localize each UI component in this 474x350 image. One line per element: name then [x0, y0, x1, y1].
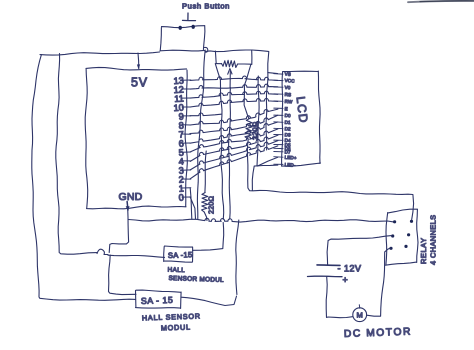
resistor 220 ohm upper: [245, 119, 252, 140]
wire pin1 to GND rail: [190, 188, 192, 219]
wire pin13 to LCD VCC: [190, 76, 278, 80]
svg-text:MODUL: MODUL: [161, 322, 191, 332]
ground arrow: [126, 202, 129, 211]
svg-text:E: E: [284, 106, 288, 111]
wire vertical GND rail to SA-15 module 2: [236, 220, 239, 295]
svg-text:V0: V0: [284, 85, 290, 90]
wire vertical mid bundle: [257, 76, 259, 166]
wire left inner supply: [56, 54, 97, 255]
resistor 220 ohm lower: [202, 193, 208, 213]
svg-text:GND: GND: [119, 191, 143, 203]
wire vertical from button right leg: [197, 50, 205, 219]
svg-text:220Ω: 220Ω: [209, 196, 216, 214]
wire motor to relay: [367, 248, 391, 316]
push button contact dot right: [192, 25, 195, 29]
potentiometer wiper arrow: [229, 72, 231, 88]
push button: [160, 26, 205, 52]
svg-text:LED-: LED-: [284, 162, 296, 168]
LCD display module: [282, 71, 321, 166]
wire pin12 to LCD V0: [190, 84, 278, 89]
wire battery to motor: [326, 277, 352, 318]
LCD pin ticks: [274, 73, 283, 75]
wire pin8 to LCD E: [190, 109, 278, 125]
microcontroller board: [85, 67, 187, 208]
svg-text:D1: D1: [284, 120, 291, 125]
svg-text:SENSOR MODUL: SENSOR MODUL: [168, 275, 224, 284]
svg-text:VCC: VCC: [284, 78, 295, 84]
svg-text:LED+: LED+: [284, 155, 297, 161]
wire battery to relay: [327, 236, 391, 265]
svg-text:- 12V: - 12V: [338, 264, 362, 274]
wire VS link: [268, 73, 278, 74]
relay terminal dots: [393, 220, 396, 223]
wire pin9 to hall riser: [190, 113, 221, 116]
svg-text:D0: D0: [284, 113, 291, 118]
svg-text:4 CHANNELS: 4 CHANNELS: [429, 215, 438, 265]
svg-text:Push Button: Push Button: [182, 1, 230, 10]
svg-text:DC MOTOR: DC MOTOR: [344, 327, 412, 340]
svg-text:SA - 15: SA - 15: [141, 295, 174, 306]
relay module: [386, 209, 419, 265]
wire pin3 to LCD D4: [190, 141, 278, 170]
hall sensor module 2 SA-15 box: [136, 290, 182, 308]
wire pin10 to LCD RW: [190, 98, 278, 107]
svg-text:+: +: [343, 275, 348, 285]
wire vertical wiper to GND rail: [229, 88, 231, 220]
wire pin7 to LCD D0: [190, 115, 278, 133]
wire GND drop and step: [109, 209, 128, 253]
wire LED+ link: [258, 157, 278, 166]
push button contact dot left: [179, 26, 182, 30]
wire vertical from potentiometer left: [215, 64, 223, 220]
wire pin0 to GND rail: [190, 197, 195, 219]
svg-text:HALL SENSOR: HALL SENSOR: [142, 311, 201, 322]
wire pin5 to LCD D2: [190, 129, 278, 152]
wire SA-15 module 2 return: [181, 296, 237, 305]
svg-text:VS: VS: [284, 71, 291, 76]
wire pin11 to LCD RS: [190, 91, 278, 98]
page edge shadow top right: [408, 1, 474, 2]
wire resistor to relay line: [247, 139, 413, 220]
svg-text:HALL: HALL: [167, 267, 185, 275]
wire pin6 to LCD D1: [190, 122, 278, 143]
potentiometer left edge: [214, 51, 217, 64]
wire to SA-15 module 2 drop: [109, 255, 137, 295]
microcontroller pin ticks 13-0: [182, 79, 191, 81]
wire bundle to lower resistor: [205, 151, 206, 193]
wire SA-15 module 1 to GND rail: [193, 223, 224, 251]
wire pin4 to LCD D3: [190, 135, 278, 161]
wire 5V rail top: [40, 52, 160, 55]
wire drop to LCD VS: [266, 52, 269, 151]
svg-text:D2: D2: [284, 126, 291, 131]
motor M: [353, 308, 367, 322]
potentiometer element: [216, 63, 222, 65]
svg-text:SA -15: SA -15: [168, 250, 193, 260]
svg-text:0: 0: [178, 192, 184, 202]
svg-text:LCD: LCD: [294, 96, 311, 125]
svg-text:RELAY: RELAY: [419, 237, 428, 264]
wire lower resistor to GND rail: [204, 212, 207, 221]
wire 5V stub to board: [137, 53, 140, 69]
svg-text:5V: 5V: [131, 76, 148, 90]
wire GND rail to relay: [129, 218, 394, 222]
wire rail right of button: [205, 47, 208, 52]
wire potentiometer right down to resistor: [244, 64, 251, 118]
junction loop at wire join: [97, 249, 108, 254]
battery 12V plates: [317, 264, 340, 267]
hall sensor module 1 SA-15 box: [164, 246, 193, 262]
wire to SA-15 module 1 left: [108, 255, 165, 257]
svg-text:RS: RS: [284, 92, 291, 97]
svg-text:M: M: [357, 311, 363, 320]
wire left outer supply to SA-15 module 2: [32, 55, 136, 301]
svg-text:RW: RW: [284, 99, 293, 105]
potentiometer right edge: [251, 51, 253, 65]
svg-text:D3: D3: [284, 132, 291, 137]
wire LED- drop: [252, 165, 277, 190]
wire pin2 to LCD D5: [190, 146, 278, 179]
push button plunger: [187, 13, 189, 20]
